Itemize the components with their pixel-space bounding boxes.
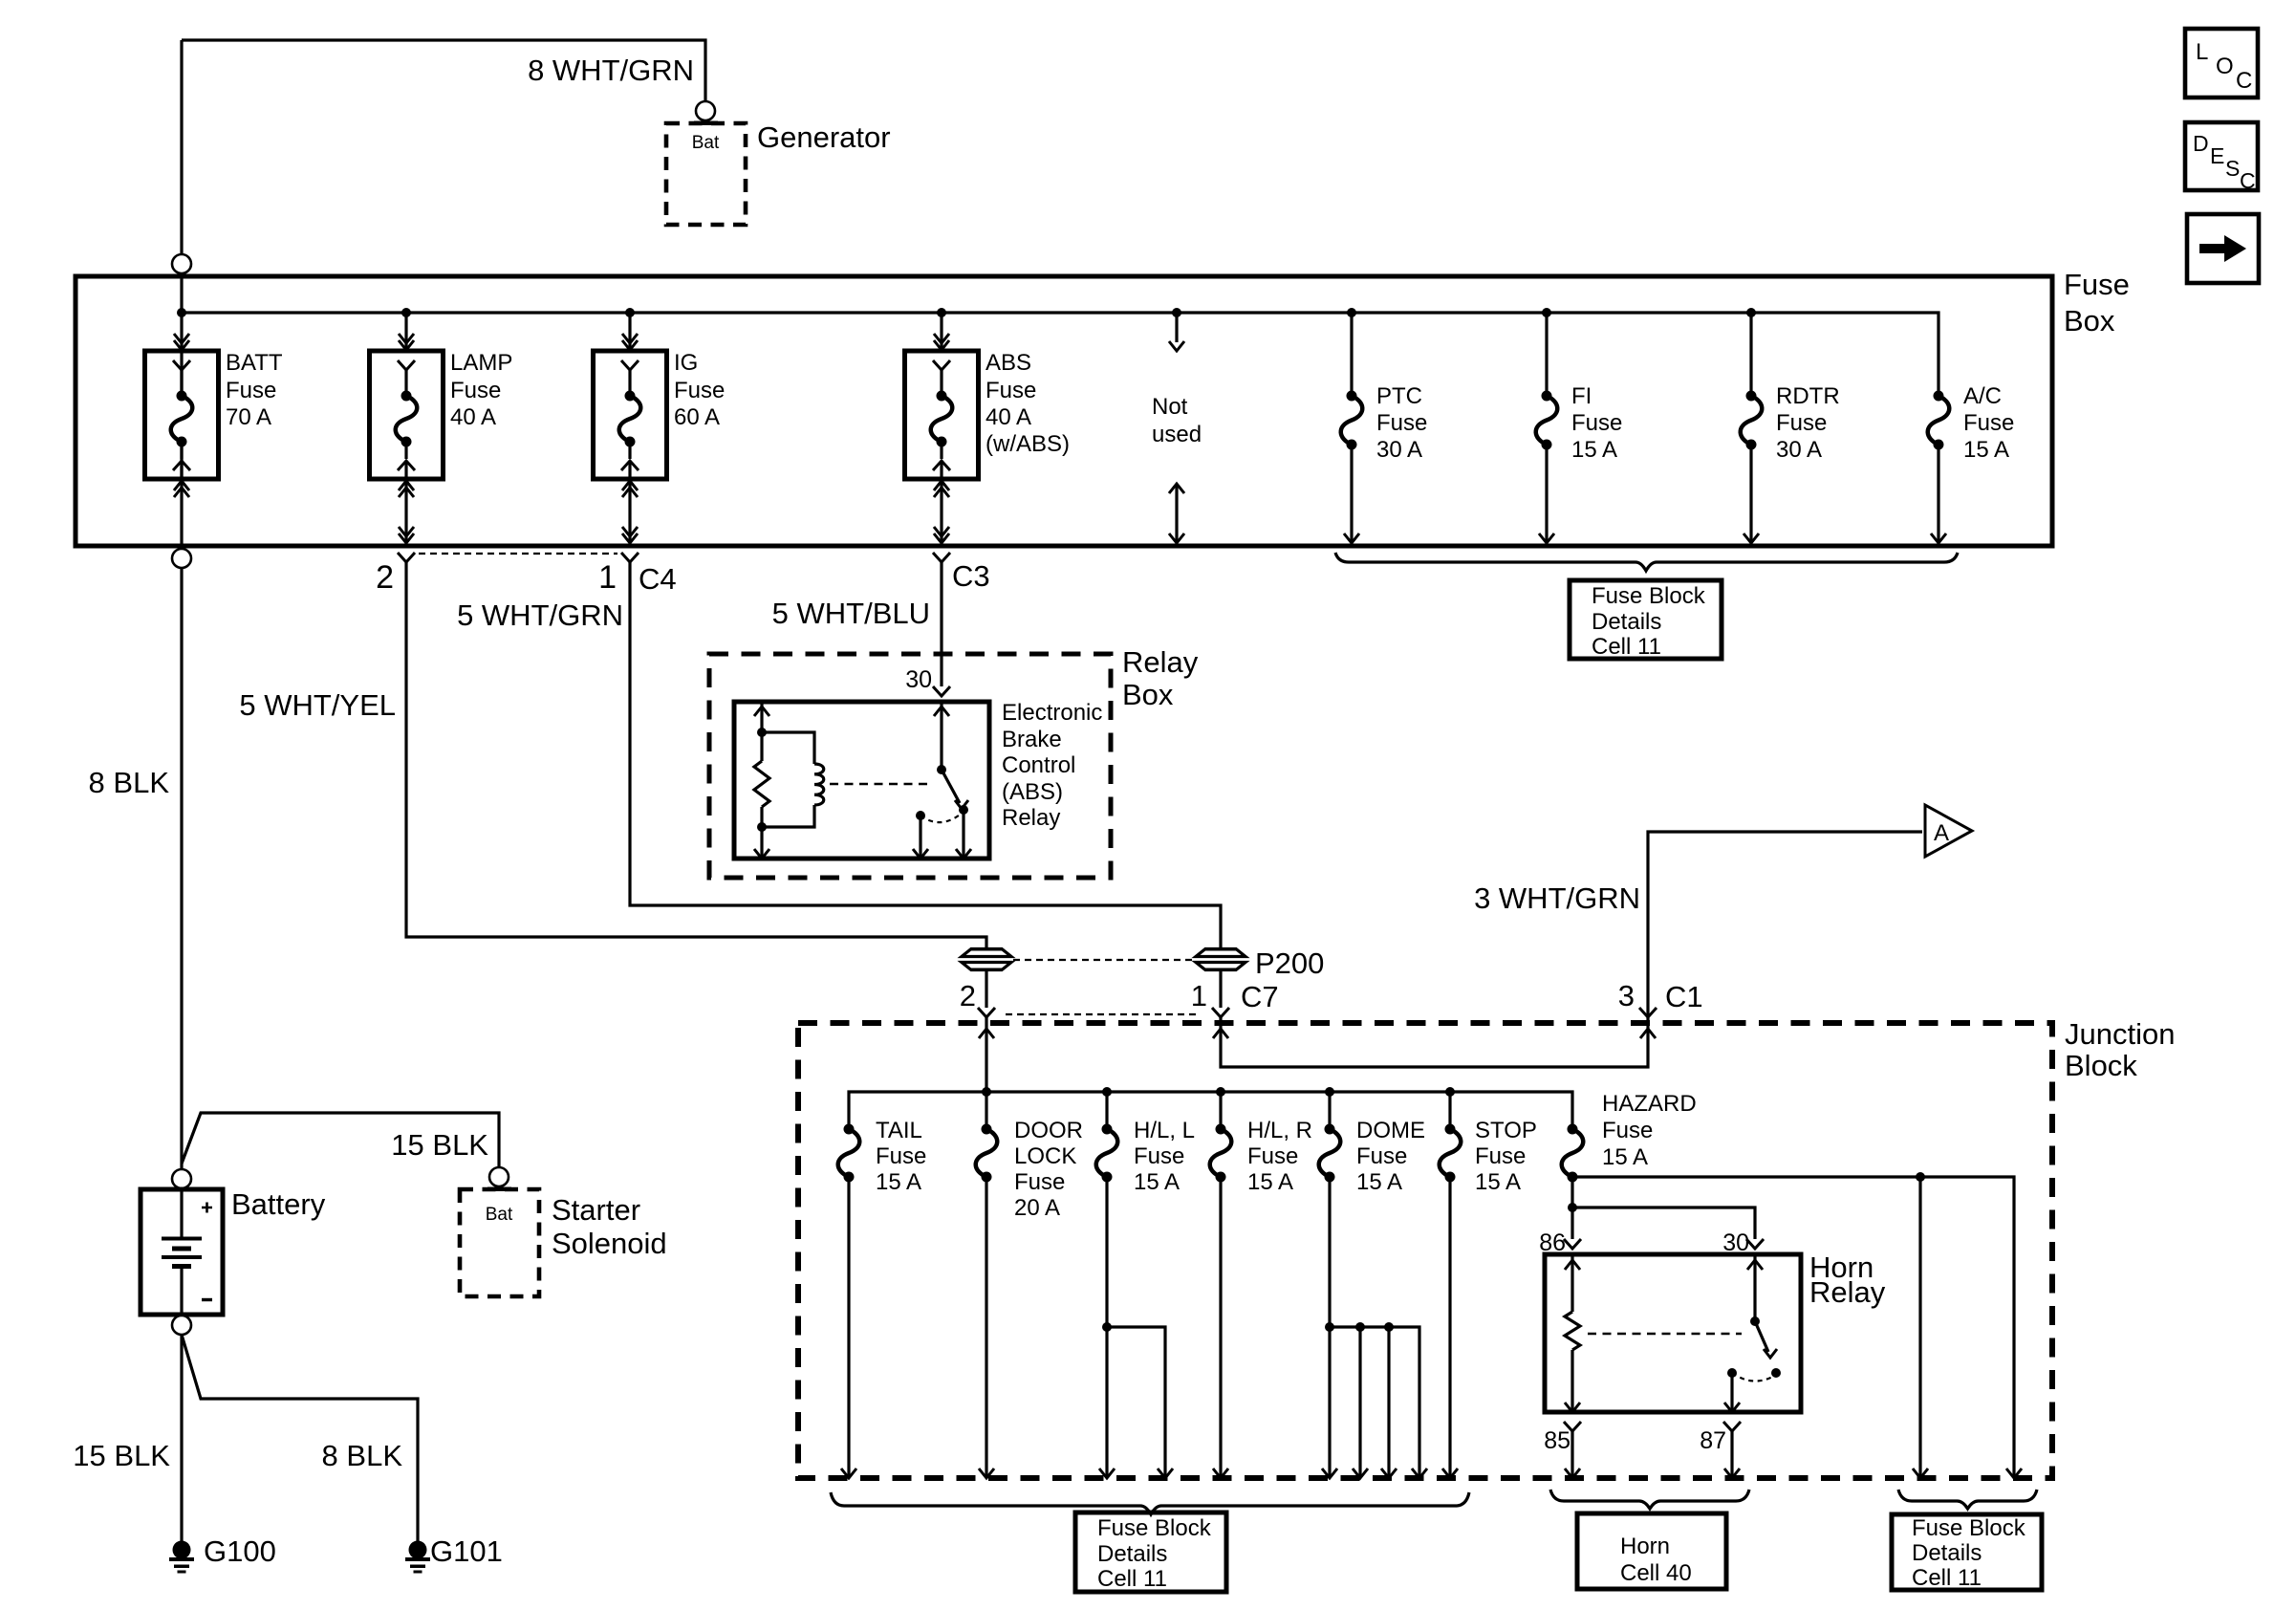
svg-text:Starter: Starter (552, 1193, 640, 1227)
arrow ABS at bottom edge (934, 527, 949, 536)
horn relay contact dashed arc (1732, 1373, 1776, 1382)
svg-text:C3: C3 (952, 559, 990, 593)
terminal Y at IG exit pin 1 (621, 553, 639, 562)
wire horn 85 to bottom (1570, 1431, 1573, 1476)
terminal Y below horn pin 87 (1723, 1422, 1741, 1431)
svg-text:Fuse: Fuse (1014, 1169, 1065, 1195)
svg-text:G100: G100 (204, 1534, 276, 1568)
svg-text:H/L, L: H/L, L (1134, 1118, 1195, 1143)
starter solenoid Bat terminal circle (489, 1167, 509, 1186)
svg-text:15 A: 15 A (1134, 1169, 1180, 1195)
svg-text:RDTR: RDTR (1776, 383, 1840, 409)
bus dot H/L R (1216, 1087, 1225, 1097)
svg-text:C7: C7 (1241, 980, 1279, 1013)
horn relay contact right (1771, 1368, 1781, 1378)
wire pin1 entering junction block (to C1) (1221, 832, 1922, 1067)
svg-text:15 BLK: 15 BLK (391, 1128, 488, 1162)
svg-text:Fuse: Fuse (876, 1143, 926, 1169)
fuse TAIL 15A (844, 1124, 855, 1135)
svg-text:Cell 40: Cell 40 (1620, 1560, 1692, 1586)
svg-text:85: 85 (1544, 1427, 1570, 1454)
svg-text:Block: Block (2065, 1049, 2137, 1082)
bus junction dot at RDTR (1746, 308, 1756, 317)
svg-text:5 WHT/BLU: 5 WHT/BLU (772, 597, 930, 630)
svg-text:8 BLK: 8 BLK (322, 1439, 403, 1472)
svg-text:15 A: 15 A (1475, 1169, 1521, 1195)
svg-text:3: 3 (1618, 979, 1635, 1012)
wire H/L R stub (1219, 1092, 1222, 1129)
battery internal symbol (180, 1189, 183, 1237)
arrow out of LAMP fuse (399, 488, 414, 497)
brace under junction block fuses (831, 1492, 1469, 1514)
svg-text:40 A: 40 A (986, 404, 1031, 430)
wire STOP output (1448, 1177, 1451, 1476)
svg-text:15 BLK: 15 BLK (73, 1439, 170, 1472)
svg-text:Fuse Block: Fuse Block (1912, 1515, 2026, 1541)
wire DOME output (1328, 1177, 1331, 1476)
relay contact right (959, 805, 968, 815)
svg-text:Box: Box (2064, 304, 2115, 337)
fuse H/L L 15A (1102, 1124, 1113, 1135)
svg-text:Generator: Generator (757, 120, 891, 154)
svg-text:Fuse: Fuse (1134, 1143, 1184, 1169)
ground G101 (409, 1541, 427, 1559)
wire 15 BLK battery to G100 (180, 1335, 183, 1541)
not used stub arrow (1175, 313, 1178, 342)
wire 15 BLK to starter solenoid (182, 1113, 499, 1167)
svg-text:Not: Not (1152, 394, 1188, 420)
relay output right (962, 810, 964, 859)
relay contact dashed arc (921, 812, 964, 822)
svg-text:1: 1 (1191, 979, 1207, 1012)
svg-text:2: 2 (960, 979, 976, 1012)
svg-text:30 A: 30 A (1376, 437, 1422, 463)
off-page connector A (triangle) (1925, 805, 1972, 857)
terminal Y at horn pin 86 (1564, 1239, 1581, 1249)
svg-text:Box: Box (1122, 678, 1174, 711)
svg-text:Bat: Bat (692, 133, 720, 153)
svg-text:20 A: 20 A (1014, 1195, 1060, 1221)
terminal Y below P200 pin1 (1212, 1008, 1229, 1017)
svg-text:Junction: Junction (2065, 1017, 2175, 1051)
svg-text:TAIL: TAIL (876, 1118, 922, 1143)
svg-text:Fuse: Fuse (2064, 268, 2130, 301)
terminal circle at fuse box top (x190) (172, 254, 191, 273)
svg-text:L: L (2196, 39, 2208, 65)
wire IG drop (628, 313, 631, 351)
bus junction dot at IG (625, 308, 635, 317)
arrow out of IG fuse (622, 488, 638, 497)
bus dot DOOR LOCK (982, 1087, 991, 1097)
wire H/L L branch (1107, 1327, 1165, 1476)
brace under right wires (1898, 1490, 2037, 1509)
relay coil wire (left pin) (760, 702, 763, 761)
terminal circle below fuse box (x190) (172, 549, 191, 568)
fuse block details box (right) (1892, 1514, 2042, 1590)
terminal Y at ABS exit (933, 553, 950, 562)
relay coil top node (757, 728, 767, 737)
arrow LAMP at bottom edge (399, 527, 414, 536)
relay coil parallel branch (762, 732, 814, 764)
relay switch pivot (937, 765, 946, 774)
svg-text:A/C: A/C (1963, 383, 2002, 409)
svg-text:LOCK: LOCK (1014, 1143, 1076, 1169)
horn relay output 87 wire (1730, 1373, 1733, 1412)
svg-text:60 A: 60 A (674, 404, 720, 430)
horn relay outline (1545, 1254, 1801, 1412)
terminal Y below P200 pin2 (978, 1008, 995, 1017)
svg-text:Relay: Relay (1002, 805, 1060, 831)
relay dashed actuator line (830, 783, 929, 785)
wire H/L R output (1219, 1177, 1222, 1476)
junction block dashed outline (798, 1023, 2052, 1478)
wire ABS fuse to bottom edge (940, 479, 942, 543)
wire DOOR LOCK output (985, 1177, 987, 1476)
wire HAZARD down to relay 86 (1570, 1177, 1573, 1239)
fuse box internal bus (182, 313, 1939, 396)
bus junction dot at FI (1542, 308, 1551, 317)
wire 5 WHT/YEL (LAMP pin2 to P200) (406, 562, 986, 947)
svg-text:IG: IG (674, 350, 698, 376)
svg-text:D: D (2193, 131, 2209, 156)
horn relay contact left (1727, 1368, 1737, 1378)
connector P200 pin 1 (inline) (1196, 949, 1245, 957)
svg-text:C: C (2236, 68, 2252, 94)
wire branch to horn relay 30 (1572, 1207, 1755, 1239)
fuse RDTR 30A (1749, 313, 1752, 396)
svg-text:15 A: 15 A (1571, 437, 1617, 463)
fuse block details box (junction) (1075, 1512, 1226, 1592)
svg-text:BATT: BATT (226, 350, 283, 376)
svg-text:P200: P200 (1255, 946, 1324, 980)
wire 5 WHT/GRN (IG pin1 to P200) (630, 562, 1221, 947)
svg-text:Fuse: Fuse (986, 378, 1036, 403)
fuse BATT 70A (145, 351, 219, 479)
not used double arrow (1175, 486, 1178, 541)
dashed connector line C7 (1006, 1013, 1201, 1015)
wire P200 pin2 to junction block (985, 971, 987, 1008)
wire IG fuse to bottom edge (628, 479, 631, 543)
battery - terminal circle (172, 1316, 191, 1335)
svg-text:Relay: Relay (1122, 645, 1199, 679)
fuse DOOR LOCK 20A (982, 1124, 992, 1135)
svg-text:Electronic: Electronic (1002, 700, 1102, 726)
bus dot STOP (1445, 1087, 1455, 1097)
dot DOME fan 1 (1325, 1322, 1334, 1332)
wire H/L L output (1105, 1177, 1108, 1476)
generator dashed box (666, 123, 746, 225)
junction block bus (849, 1092, 1572, 1129)
svg-text:Fuse: Fuse (1247, 1143, 1298, 1169)
arrow IG at bottom edge (622, 527, 638, 536)
svg-text:Fuse: Fuse (674, 378, 725, 403)
fuse block details box (under fuse box) (1570, 580, 1722, 659)
svg-text:(w/ABS): (w/ABS) (986, 431, 1070, 457)
wire LAMP fuse to bottom edge (404, 479, 407, 543)
svg-text:Fuse: Fuse (1571, 410, 1622, 436)
wire H/L L stub (1105, 1092, 1108, 1129)
wire P200 pin1 to junction block (1219, 971, 1222, 1008)
wire STOP stub (1448, 1092, 1451, 1129)
horn relay coil wire (1570, 1254, 1573, 1312)
bus junction dot at LAMP (401, 308, 411, 317)
fuse PTC 30A (1350, 313, 1353, 396)
svg-text:87: 87 (1700, 1427, 1726, 1454)
svg-text:Fuse: Fuse (1376, 410, 1427, 436)
svg-text:HAZARD: HAZARD (1602, 1091, 1697, 1117)
svg-text:15 A: 15 A (1963, 437, 2009, 463)
fuse IG 60A (594, 351, 667, 479)
fuse DOME 15A (1325, 1124, 1335, 1135)
wire 5 WHT/BLU (ABS to relay 30) (940, 562, 942, 686)
svg-text:Fuse: Fuse (226, 378, 276, 403)
wire DOME stub (1328, 1092, 1331, 1129)
svg-text:DOOR: DOOR (1014, 1118, 1083, 1143)
svg-text:Bat: Bat (486, 1205, 513, 1225)
relay resistor (754, 761, 769, 807)
wire right vertical to bottom (1918, 1177, 1921, 1476)
svg-text:H/L, R: H/L, R (1247, 1118, 1312, 1143)
wire ABS drop (940, 313, 942, 351)
horn relay resistor (1565, 1312, 1580, 1350)
svg-text:DOME: DOME (1356, 1118, 1425, 1143)
starter solenoid terminal bar (487, 1187, 511, 1192)
generator Bat terminal bar (694, 121, 718, 126)
horn relay switch pivot (1750, 1316, 1760, 1326)
wire pin2 entering junction block (985, 1017, 987, 1129)
terminal Y at LAMP exit pin 2 (398, 553, 415, 562)
ABS relay outline (734, 702, 989, 859)
fuse box outline (76, 276, 2052, 546)
svg-text:Cell 11: Cell 11 (1592, 634, 1661, 660)
junction dot hazard to coil/30 (1568, 1203, 1577, 1212)
starter solenoid dashed box (460, 1189, 539, 1296)
svg-text:Solenoid: Solenoid (552, 1227, 667, 1260)
generator Bat terminal circle (696, 101, 715, 120)
svg-text:Fuse: Fuse (1602, 1118, 1653, 1143)
svg-text:Details: Details (1592, 609, 1661, 635)
svg-text:Fuse: Fuse (1356, 1143, 1407, 1169)
svg-text:Brake: Brake (1002, 727, 1062, 752)
horn cell box (1577, 1513, 1726, 1589)
relay switch blade (942, 770, 960, 803)
svg-text:15 A: 15 A (1602, 1144, 1648, 1170)
bus junction dot at PTC (1347, 308, 1356, 317)
svg-text:3 WHT/GRN: 3 WHT/GRN (1474, 881, 1640, 915)
svg-text:C: C (2240, 168, 2256, 193)
svg-text:Cell 11: Cell 11 (1097, 1566, 1167, 1592)
svg-text:15 A: 15 A (876, 1169, 921, 1195)
arrow into ABS fuse (934, 334, 949, 343)
svg-text:FI: FI (1571, 383, 1592, 409)
fuse H/L R 15A (1216, 1124, 1226, 1135)
fuse HAZARD 15A (1568, 1124, 1578, 1135)
svg-text:PTC: PTC (1376, 383, 1422, 409)
svg-text:used: used (1152, 422, 1202, 447)
junction dot on hazard branch (1916, 1172, 1925, 1182)
brace under horn relay pins (1550, 1490, 1749, 1509)
wire LAMP drop (404, 313, 407, 351)
svg-text:Control: Control (1002, 752, 1075, 778)
svg-text:70 A: 70 A (226, 404, 271, 430)
svg-text:(ABS): (ABS) (1002, 779, 1063, 805)
terminal Y at C1 exit (1639, 1008, 1657, 1017)
arrow out of BATT fuse (174, 488, 189, 497)
svg-text:Details: Details (1097, 1541, 1167, 1567)
svg-text:Fuse Block: Fuse Block (1097, 1515, 1212, 1541)
horn relay pin30 wire (1753, 1254, 1756, 1321)
bus dot DOME (1325, 1087, 1334, 1097)
terminal Y below horn pin 85 (1564, 1422, 1581, 1431)
dashed connector line C4 (419, 553, 617, 555)
fuse LAMP 40A (370, 351, 444, 479)
battery minus sign (202, 1298, 212, 1301)
svg-text:30: 30 (905, 666, 932, 693)
terminal Y at relay pin 30 (933, 686, 950, 696)
svg-text:Fuse Block: Fuse Block (1592, 583, 1706, 609)
wire horn 87 to bottom (1730, 1431, 1733, 1476)
bus dot H/L L (1102, 1087, 1112, 1097)
junction dot H/L L split (1102, 1322, 1112, 1332)
bus junction dot at Not-used (1172, 308, 1181, 317)
fuse FI 15A (1545, 313, 1548, 396)
relay box dashed outline (709, 654, 1111, 878)
svg-text:Details: Details (1912, 1540, 1982, 1566)
svg-text:15 A: 15 A (1356, 1169, 1402, 1195)
svg-text:2: 2 (376, 559, 394, 596)
brace under fuse block fuses (1335, 553, 1958, 571)
svg-text:30 A: 30 A (1776, 437, 1822, 463)
svg-text:Relay: Relay (1809, 1275, 1886, 1309)
svg-text:5 WHT/YEL: 5 WHT/YEL (239, 688, 396, 722)
dot DOME fan 3 (1384, 1322, 1394, 1332)
svg-text:STOP: STOP (1475, 1118, 1537, 1143)
svg-text:A: A (1934, 820, 1949, 846)
battery + terminal circle (172, 1169, 191, 1188)
horn relay switch blade (1755, 1321, 1768, 1352)
dashed line between P200 halves (1013, 959, 1194, 961)
wire TAIL output (847, 1177, 850, 1476)
wire DOME fanout (1330, 1327, 1419, 1476)
svg-text:ABS: ABS (986, 350, 1031, 376)
wire DOME fan 3 (1387, 1327, 1390, 1476)
terminal Y at horn pin 30 (1746, 1239, 1764, 1249)
svg-text:5 WHT/GRN: 5 WHT/GRN (457, 598, 623, 632)
fuse ABS 40A (905, 351, 979, 479)
svg-text:E: E (2210, 143, 2224, 168)
arrow icon box (2187, 214, 2259, 283)
svg-text:Battery: Battery (231, 1187, 326, 1221)
svg-text:Fuse: Fuse (1475, 1143, 1526, 1169)
svg-text:O: O (2216, 54, 2234, 79)
svg-text:S: S (2225, 156, 2240, 181)
svg-text:LAMP: LAMP (450, 350, 512, 376)
arrow out of ABS fuse (934, 488, 949, 497)
battery outline (141, 1189, 223, 1315)
ground G100 (173, 1541, 191, 1559)
svg-text:1: 1 (598, 559, 617, 596)
bus junction dot at BATT (177, 308, 186, 317)
arrow into BATT fuse (174, 334, 189, 343)
svg-text:8 WHT/GRN: 8 WHT/GRN (528, 54, 694, 87)
svg-text:G101: G101 (430, 1534, 503, 1568)
bus junction dot at ABS (937, 308, 946, 317)
wire 8 BLK left vertical (generator/fuse box to battery) (180, 40, 183, 396)
svg-text:C1: C1 (1665, 980, 1703, 1013)
svg-text:15 A: 15 A (1247, 1169, 1293, 1195)
relay contact left (916, 811, 925, 820)
DESC icon box (2185, 122, 2258, 190)
dot DOME fan 2 (1355, 1322, 1365, 1332)
fuse STOP 15A (1445, 1124, 1456, 1135)
arrow into IG fuse (622, 334, 638, 343)
fuse A/C 15A (1934, 391, 1944, 402)
svg-text:Fuse: Fuse (450, 378, 501, 403)
svg-text:40 A: 40 A (450, 404, 496, 430)
relay pin30 wire to pivot (940, 702, 942, 770)
svg-text:C4: C4 (639, 562, 677, 596)
svg-text:8 BLK: 8 BLK (89, 766, 170, 799)
svg-text:Horn: Horn (1620, 1534, 1670, 1559)
relay coil bottom node (757, 822, 767, 832)
relay output left (919, 816, 921, 859)
svg-text:Fuse: Fuse (1776, 410, 1827, 436)
wire DOME fan 2 (1358, 1327, 1361, 1476)
horn relay dashed actuator line (1588, 1333, 1742, 1335)
connector P200 pin 2 (inline) (962, 949, 1011, 957)
arrow into LAMP fuse (399, 334, 414, 343)
wire HAZARD branch right (1572, 1177, 2014, 1476)
svg-text:Cell 11: Cell 11 (1912, 1565, 1982, 1591)
wire 8 BLK battery to G101 (182, 1335, 418, 1541)
LOC icon box (2185, 29, 2258, 98)
battery plus sign (202, 1203, 212, 1213)
wire 8 WHT/GRN from fuse box to generator (top run) (182, 40, 705, 101)
svg-text:Fuse: Fuse (1963, 410, 2014, 436)
